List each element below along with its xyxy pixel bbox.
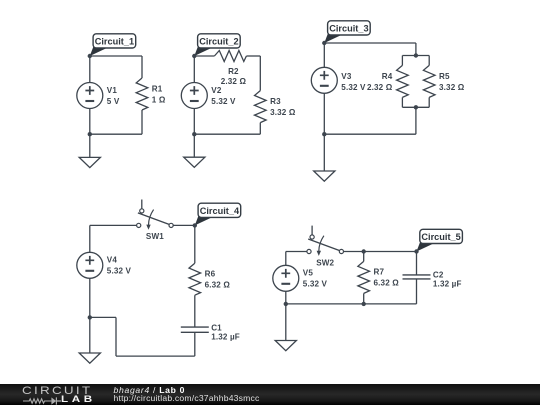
ground circuit 4 <box>79 353 100 363</box>
wire: R1 bottom down <box>141 110 143 134</box>
wire: down to R1 top <box>141 56 143 78</box>
wire bottom: C1 to jog <box>116 355 195 357</box>
wire: V1 bottom <box>89 109 91 135</box>
footer title: bhagar4 / Lab 0 <box>114 385 186 395</box>
svg-text:5.32 V: 5.32 V <box>303 280 328 289</box>
CircuitLab logo wordmark CIRCUIT <box>22 385 92 397</box>
wire: node to R2 <box>194 55 214 57</box>
CircuitLab logo wordmark LAB <box>61 394 96 404</box>
capacitor C1 1.32 uF <box>181 324 240 342</box>
svg-text:5.32 V: 5.32 V <box>107 267 132 276</box>
voltage source V1 5 V <box>77 83 120 109</box>
label Circuit_4 callout <box>195 203 241 225</box>
svg-text:1.32 µF: 1.32 µF <box>211 332 240 341</box>
svg-text:R3: R3 <box>270 97 281 106</box>
svg-text:1 Ω: 1 Ω <box>152 96 166 105</box>
voltage source V5 5.32 V <box>273 265 328 291</box>
svg-text:Circuit_3: Circuit_3 <box>329 24 368 34</box>
wire: ground stem <box>89 317 91 353</box>
resistor R7 <box>358 261 399 293</box>
wire: stub to R4 <box>401 56 403 66</box>
node Circuit_1 top junction <box>88 54 92 58</box>
wire: V5 top up <box>285 252 287 266</box>
resistor R2 <box>214 51 246 87</box>
wire: jog to V4 bottom <box>90 316 116 318</box>
wire: down from bottom bar <box>415 107 417 134</box>
svg-text:V2: V2 <box>211 86 222 95</box>
node Circuit_3 top junction <box>322 41 326 45</box>
svg-text:R2: R2 <box>228 67 239 76</box>
svg-text:Circuit_2: Circuit_2 <box>199 37 238 47</box>
svg-text:5.32 V: 5.32 V <box>211 97 236 106</box>
wire: ground stem <box>193 134 195 157</box>
wire top: node to R1 <box>90 55 142 57</box>
svg-text:V4: V4 <box>107 256 118 265</box>
footer bar background <box>0 384 540 405</box>
wire: SW1 right terminal to node <box>173 224 195 226</box>
svg-text:1.32 µF: 1.32 µF <box>433 280 462 289</box>
svg-text:5.32 V: 5.32 V <box>341 83 366 92</box>
label Circuit_1 callout <box>90 34 136 56</box>
ground circuit 2 <box>184 157 205 167</box>
wire: R5 bottom stub <box>428 97 430 107</box>
node Circuit_4 junction <box>193 223 197 227</box>
svg-text:Circuit_1: Circuit_1 <box>95 37 134 47</box>
wire: V4 top up <box>89 225 91 252</box>
junction dot circuit 2 bottom <box>192 132 196 136</box>
wire: node to V1 top <box>89 56 91 83</box>
wire: down to top bar <box>415 43 417 56</box>
node Circuit_5 junction <box>414 249 418 253</box>
footer url <box>114 393 260 403</box>
wire: ground stem <box>89 134 91 157</box>
svg-text:C1: C1 <box>211 324 222 333</box>
junction dot top bar <box>414 53 418 57</box>
wire bottom: C2 to V5 <box>286 303 417 305</box>
wire: C1 bottom down <box>194 332 196 356</box>
svg-text:R7: R7 <box>374 268 385 277</box>
wire: R3 bottom down <box>259 123 261 135</box>
resistor R3 <box>255 91 296 123</box>
svg-text:R6: R6 <box>205 270 216 279</box>
node Circuit_2 top junction <box>192 54 196 58</box>
junction dot R7 bottom <box>362 302 366 306</box>
wire bottom: to V3 <box>324 133 416 135</box>
wire: stub to R5 <box>428 56 430 66</box>
wire: SW2 right terminal to C2 node <box>344 251 417 253</box>
capacitor C2 1.32 uF <box>403 271 462 289</box>
wire: V3 bottom <box>323 93 325 134</box>
wire: to SW2 left terminal <box>286 251 307 253</box>
svg-text:V1: V1 <box>107 86 118 95</box>
label Circuit_3 callout <box>324 21 370 43</box>
wire: ground stem <box>323 134 325 171</box>
wire bottom: R3 to V2 <box>194 133 260 135</box>
svg-text:2.32 Ω: 2.32 Ω <box>221 77 247 86</box>
wire: to SW1 left terminal <box>90 224 137 226</box>
logo squiggle: wire, resistor, diode <box>23 396 63 405</box>
switch SW1 terminal circles and lever <box>137 200 174 230</box>
svg-text:R1: R1 <box>152 85 163 94</box>
resistor R5 <box>423 65 464 97</box>
wire: down to R7 <box>363 252 365 262</box>
wire: node to V3 top <box>323 43 325 67</box>
svg-text:C2: C2 <box>433 271 444 280</box>
wire: V4 bottom <box>89 278 91 317</box>
label Circuit_2 callout <box>194 34 240 56</box>
wire: ground stem <box>285 304 287 341</box>
wire bottom: R1 to V1 <box>90 133 142 135</box>
resistor R6 <box>189 263 230 295</box>
junction dot circuit 5 bottom <box>284 302 288 306</box>
voltage source V4 5.32 V <box>77 252 132 278</box>
wire: jog up <box>115 317 117 356</box>
ground circuit 5 <box>275 341 296 351</box>
wire: node down to R6 <box>194 225 196 263</box>
wire: V5 bottom <box>285 291 287 304</box>
svg-text:R5: R5 <box>439 72 450 81</box>
resistor R1 <box>136 78 166 110</box>
svg-text:5 V: 5 V <box>107 97 120 106</box>
wire: down to R3 <box>259 56 261 91</box>
resistor R4 <box>367 65 408 97</box>
svg-text:R4: R4 <box>382 72 393 81</box>
junction dot bottom bar <box>414 105 418 109</box>
wire: bottom bar of R4||R5 <box>402 106 429 108</box>
ground circuit 3 <box>314 171 335 181</box>
junction dot R7 top <box>362 249 366 253</box>
svg-text:SW2: SW2 <box>316 258 334 267</box>
wire top: node to parallel pair <box>324 42 416 44</box>
wire: C2 bottom stub <box>416 279 418 304</box>
svg-text:6.32 Ω: 6.32 Ω <box>205 281 231 290</box>
switch SW2 terminal circles and lever <box>307 226 344 256</box>
wire: R7 bottom stub <box>363 293 365 304</box>
svg-text:V5: V5 <box>303 269 314 278</box>
voltage source V3 5.32 V <box>311 67 366 93</box>
wire: V2 bottom <box>193 109 195 135</box>
svg-text:Circuit_5: Circuit_5 <box>421 232 460 242</box>
junction dot circuit 1 bottom <box>88 132 92 136</box>
label Circuit_5 callout <box>417 229 463 251</box>
wire: R6 to C1 <box>194 295 196 327</box>
wire: C2 top stub <box>416 252 418 275</box>
wire: R4 bottom stub <box>401 97 403 107</box>
svg-text:2.32 Ω: 2.32 Ω <box>367 83 393 92</box>
svg-text:3.32 Ω: 3.32 Ω <box>439 83 465 92</box>
ground circuit 1 <box>79 157 100 167</box>
voltage source V2 5.32 V <box>181 83 236 109</box>
svg-text:Circuit_4: Circuit_4 <box>200 206 240 216</box>
wire: top bar of R4||R5 <box>402 55 429 57</box>
svg-text:3.32 Ω: 3.32 Ω <box>270 108 296 117</box>
junction dot circuit 4 bottom <box>88 315 92 319</box>
svg-text:V3: V3 <box>341 72 352 81</box>
svg-text:SW1: SW1 <box>146 232 164 241</box>
wire: R2 to corner <box>246 55 260 57</box>
svg-text:6.32 Ω: 6.32 Ω <box>374 279 400 288</box>
junction dot circuit 3 bottom <box>322 132 326 136</box>
wire: node to V2 top <box>193 56 195 83</box>
